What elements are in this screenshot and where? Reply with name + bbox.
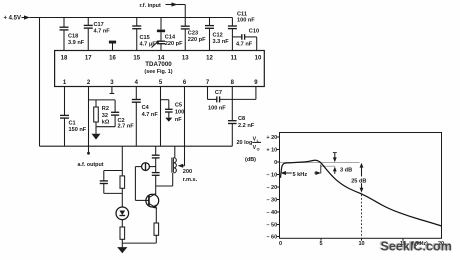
svg-text:– 60: – 60 bbox=[266, 235, 277, 241]
svg-text:2.7 nF: 2.7 nF bbox=[118, 124, 135, 130]
svg-text:100 nF: 100 nF bbox=[237, 18, 255, 24]
svg-text:O: O bbox=[257, 147, 260, 151]
svg-text:25 dB: 25 dB bbox=[351, 179, 366, 185]
svg-text:13: 13 bbox=[182, 55, 189, 61]
svg-text:+ 20: + 20 bbox=[266, 135, 277, 141]
svg-text:3 dB: 3 dB bbox=[340, 168, 352, 174]
svg-text:– 10: – 10 bbox=[266, 173, 277, 179]
svg-text:C5: C5 bbox=[175, 102, 182, 108]
svg-text:C11: C11 bbox=[237, 12, 247, 18]
svg-text:11: 11 bbox=[231, 55, 238, 61]
svg-text:C7: C7 bbox=[215, 90, 222, 96]
svg-text:2.2 nF: 2.2 nF bbox=[238, 123, 255, 129]
svg-text:3.3 nF: 3.3 nF bbox=[213, 39, 230, 45]
svg-text:5 kHz: 5 kHz bbox=[293, 172, 308, 178]
svg-text:220 pF: 220 pF bbox=[188, 37, 206, 43]
svg-text:– 50: – 50 bbox=[266, 223, 277, 229]
svg-text:200: 200 bbox=[183, 169, 192, 175]
svg-text:C14: C14 bbox=[165, 35, 176, 41]
svg-text:R2: R2 bbox=[102, 106, 109, 112]
svg-text:+ 10: + 10 bbox=[266, 148, 277, 154]
svg-text:C23: C23 bbox=[188, 31, 198, 37]
svg-text:10: 10 bbox=[255, 55, 262, 61]
svg-text:15: 15 bbox=[133, 55, 140, 61]
svg-text:a.f. output: a.f. output bbox=[78, 162, 104, 168]
svg-text:0: 0 bbox=[279, 241, 282, 247]
svg-text:– 40: – 40 bbox=[266, 210, 277, 216]
svg-text:TDA7000: TDA7000 bbox=[145, 61, 172, 68]
svg-text:r.m.s.: r.m.s. bbox=[183, 177, 198, 183]
svg-text:100 nF: 100 nF bbox=[208, 106, 226, 112]
svg-text:5: 5 bbox=[319, 241, 322, 247]
svg-text:4.7 nF: 4.7 nF bbox=[142, 112, 159, 118]
svg-text:20 log: 20 log bbox=[237, 140, 253, 146]
svg-text:4.7 nF: 4.7 nF bbox=[236, 41, 253, 47]
svg-text:– 20: – 20 bbox=[266, 185, 277, 191]
svg-text:100: 100 bbox=[175, 109, 184, 115]
svg-text:C18: C18 bbox=[68, 34, 78, 40]
svg-text:0: 0 bbox=[274, 160, 277, 166]
svg-text:C15: C15 bbox=[140, 35, 150, 41]
svg-text:C12: C12 bbox=[213, 33, 223, 39]
svg-text:4.7 μF: 4.7 μF bbox=[140, 42, 157, 48]
svg-text:+ 4.5V: + 4.5V bbox=[4, 16, 22, 22]
svg-text:SeekIC.com: SeekIC.com bbox=[381, 240, 452, 254]
svg-text:3.9 nF: 3.9 nF bbox=[68, 40, 85, 46]
svg-text:nF: nF bbox=[175, 117, 182, 123]
svg-text:16: 16 bbox=[109, 55, 116, 61]
svg-text:kΩ: kΩ bbox=[102, 120, 110, 126]
svg-text:r.f. input: r.f. input bbox=[140, 3, 161, 9]
svg-text:150 nF: 150 nF bbox=[69, 127, 87, 133]
svg-text:10: 10 bbox=[358, 241, 364, 247]
svg-text:(see Fig. 1): (see Fig. 1) bbox=[144, 69, 172, 75]
svg-text:(dB): (dB) bbox=[245, 157, 256, 163]
svg-text:C4: C4 bbox=[142, 105, 150, 111]
svg-text:C8: C8 bbox=[238, 116, 245, 122]
svg-text:4.7 nF: 4.7 nF bbox=[94, 29, 111, 35]
svg-text:– 30: – 30 bbox=[266, 198, 277, 204]
svg-text:C10: C10 bbox=[249, 29, 259, 35]
svg-text:C17: C17 bbox=[94, 22, 104, 28]
svg-text:220 pF: 220 pF bbox=[165, 41, 183, 47]
svg-text:17: 17 bbox=[85, 55, 92, 61]
svg-text:32: 32 bbox=[102, 113, 108, 119]
svg-text:18: 18 bbox=[61, 55, 68, 61]
svg-text:C1: C1 bbox=[69, 121, 76, 127]
svg-text:12: 12 bbox=[206, 55, 213, 61]
